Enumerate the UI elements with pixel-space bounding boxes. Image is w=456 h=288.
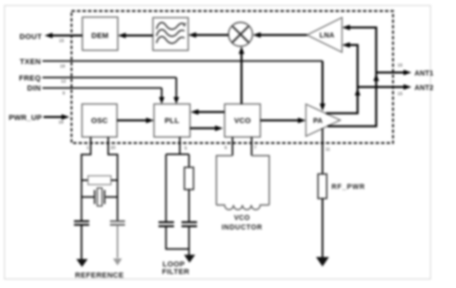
wire loop filter bottom join	[166, 226, 189, 249]
svg-text:15: 15	[398, 91, 403, 96]
wire loop filter top bar	[166, 153, 189, 155]
amplifier PA	[306, 104, 340, 136]
chip dashed border	[72, 11, 394, 143]
svg-text:15: 15	[59, 38, 64, 43]
svg-text:12: 12	[61, 78, 66, 83]
wire VCO to PA	[260, 119, 302, 121]
wire OSC pin XC1 down	[82, 137, 91, 221]
arrow into ANT2 node	[355, 88, 361, 95]
capacitor C4 (loop filter right)	[182, 221, 198, 223]
wire LNA to mixer	[256, 34, 308, 36]
wire OSC to PLL	[117, 119, 151, 121]
resistor R1 (reference)	[82, 179, 89, 181]
resistor R3 (RF_PWR)	[318, 174, 327, 199]
svg-text:11: 11	[326, 147, 331, 152]
wire PLL to VCO	[190, 127, 220, 129]
wire OSC pin XC2 down	[108, 137, 117, 221]
svg-text:ANT2: ANT2	[415, 85, 434, 92]
svg-text:1: 1	[87, 145, 90, 150]
wire PA lower output to ANT1 node	[328, 73, 377, 127]
svg-text:RF_PWR: RF_PWR	[332, 184, 366, 191]
crystal X1	[82, 196, 95, 198]
ground (loop filter)	[184, 255, 195, 263]
svg-text:DEM: DEM	[91, 31, 108, 40]
block PLL	[154, 104, 190, 137]
wire TXEN to PA	[43, 60, 323, 62]
filter wave 3	[157, 37, 185, 44]
wire mixer to filter	[191, 34, 229, 36]
wire ANT1	[376, 72, 408, 74]
svg-text:DIN: DIN	[27, 84, 41, 93]
svg-text:20: 20	[111, 145, 116, 150]
wire VCO pin 7 down	[251, 137, 253, 156]
capacitor C3 (loop filter left)	[159, 221, 175, 223]
inductor L1 (VCO inductor coil)	[216, 205, 269, 210]
filter wave 2	[157, 30, 185, 37]
wire PA upper output to ANT2 node	[326, 87, 358, 113]
wire filter to DEM	[121, 35, 153, 37]
filter wave 1	[157, 23, 185, 30]
svg-text:PLL: PLL	[165, 116, 180, 125]
capacitor C2 (reference right)	[110, 220, 125, 222]
wire VCO pin 6 down	[232, 137, 234, 156]
block DEM	[82, 17, 117, 50]
svg-text:DOUT: DOUT	[20, 32, 43, 41]
svg-text:9: 9	[63, 90, 66, 95]
svg-text:FREQ: FREQ	[19, 73, 41, 82]
ground (reference left)	[76, 259, 87, 267]
svg-text:PA: PA	[313, 118, 323, 125]
wire ANT1 node to LNA top input	[345, 28, 376, 73]
svg-text:VCO: VCO	[234, 215, 250, 222]
wire PA bottom to RF_PWR	[322, 128, 324, 174]
svg-text:VCO: VCO	[234, 116, 251, 125]
svg-text:TXEN: TXEN	[20, 57, 41, 66]
svg-text:5: 5	[185, 146, 188, 151]
wire loop filter left branch	[165, 154, 167, 222]
svg-text:ANT1: ANT1	[415, 70, 434, 77]
wire ANT2	[358, 86, 409, 88]
svg-text:16: 16	[398, 63, 403, 68]
arrow into ANT1 node	[373, 74, 379, 81]
block OSC	[82, 104, 117, 137]
svg-text:LNA: LNA	[320, 33, 335, 40]
block VCO	[225, 104, 261, 137]
wire PWR_UP	[44, 116, 65, 118]
ground (reference right)	[113, 259, 122, 266]
svg-text:PWR_UP: PWR_UP	[9, 113, 42, 122]
mixer	[229, 22, 253, 46]
ground (RF_PWR)	[316, 257, 329, 267]
svg-text:18: 18	[59, 120, 64, 125]
resistor R2 (loop filter)	[188, 154, 190, 167]
svg-text:REFERENCE: REFERENCE	[75, 271, 124, 280]
svg-text:7: 7	[254, 145, 257, 150]
block band-pass filter	[153, 18, 188, 51]
capacitor C1 (reference left)	[74, 220, 89, 222]
wire VCO to PLL	[194, 111, 225, 113]
wire FREQ to PLL	[43, 77, 177, 79]
svg-text:6: 6	[225, 145, 228, 150]
wire DIN to PLL	[43, 87, 162, 89]
wire PLL loop-filter pin	[179, 137, 181, 154]
svg-text:INDUCTOR: INDUCTOR	[222, 225, 263, 232]
amplifier LNA	[307, 18, 342, 53]
wire DEM to DOUT	[47, 35, 82, 37]
svg-text:OSC: OSC	[91, 116, 108, 125]
svg-text:FILTER: FILTER	[162, 267, 190, 276]
wire ANT2 node to LNA bottom input	[345, 45, 358, 87]
svg-text:19: 19	[60, 64, 65, 69]
wire VCO to mixer	[241, 50, 243, 105]
